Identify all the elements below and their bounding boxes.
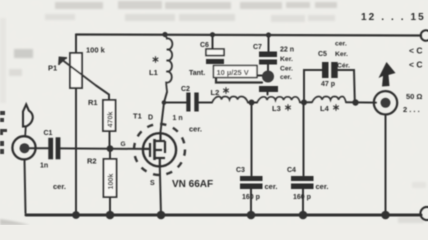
wire C4 bottom to rail (302, 189, 304, 215)
svg-text:Ker.: Ker. (335, 51, 348, 58)
svg-text:cer.: cer. (189, 125, 202, 134)
svg-text:C7: C7 (253, 44, 262, 51)
wire C6 top lead (212, 35, 214, 49)
svg-text:L1: L1 (149, 68, 158, 77)
node rail C3 (247, 211, 256, 220)
node rail P1 (72, 211, 80, 219)
resistor R1 body (103, 100, 116, 131)
wire input dot to C1 (28, 147, 49, 149)
ground terminal bottom right (420, 207, 428, 220)
inductor L2 coil (212, 97, 248, 103)
inductor L4 coil (312, 97, 346, 103)
wire bottom ground rail (26, 214, 421, 217)
node rail T1 source (157, 211, 166, 220)
wire P1 bottom to ground rail (75, 88, 77, 215)
input connector (12, 136, 35, 159)
svg-text:Ker.: Ker. (280, 56, 293, 63)
svg-text:10 µ/25 V: 10 µ/25 V (217, 68, 249, 77)
svg-text:Tant.: Tant. (189, 70, 205, 77)
transistor T1 inner circle (143, 133, 176, 166)
transistor T1 outer dashed circle (134, 124, 185, 175)
star L2 (223, 87, 229, 93)
wire C2 to L2 (199, 102, 213, 104)
svg-text:D: D (148, 115, 153, 122)
value box 10u/25V (214, 66, 258, 78)
inductor L1 coil (165, 36, 172, 92)
wire C3 drop (251, 103, 253, 176)
wire P1 wiper tap to R1 (96, 86, 109, 101)
wire rail corner down to P1 (75, 35, 77, 54)
svg-text:C3: C3 (236, 167, 245, 174)
capacitor C2 plates (186, 93, 198, 112)
wire input connector down to rail (25, 160, 26, 213)
svg-text:L3: L3 (272, 104, 281, 113)
svg-text:< C: < C (409, 60, 422, 70)
wire gate node to R2 top (109, 149, 111, 159)
svg-text:1 n: 1 n (173, 115, 183, 122)
svg-text:160 p: 160 p (293, 194, 311, 201)
feedthrough capacitor plate (259, 86, 278, 92)
svg-text:100k: 100k (106, 174, 115, 190)
input arrow (23, 105, 33, 127)
capacitor C3 plates (240, 176, 263, 189)
node rail output (381, 211, 390, 220)
node L3-L4-C5 junction (301, 99, 307, 105)
svg-text:C4: C4 (287, 167, 296, 174)
svg-text:cer.: cer. (335, 41, 347, 48)
svg-text:100 k: 100 k (86, 46, 106, 55)
output connector (374, 91, 397, 114)
wire C4 drop (303, 102, 305, 175)
supply terminal top right (421, 30, 428, 41)
svg-text:47 p: 47 p (321, 81, 335, 88)
left margin smudge (0, 18, 6, 103)
node C6 top rail (210, 32, 215, 37)
output arrow (379, 62, 396, 87)
svg-text:R1: R1 (88, 98, 98, 107)
potentiometer P1 wiper arrow (59, 58, 96, 86)
svg-text:S: S (150, 180, 155, 187)
wire C1 to gate node to T1 gate (60, 147, 143, 150)
wire C7 bottom lead (267, 65, 269, 71)
left edge cut text fragments (0, 111, 7, 154)
wire L2 end to L3 start (248, 102, 257, 104)
resistor R2 body (104, 159, 117, 197)
inductor L3 coil (257, 97, 300, 103)
wire L1 bottom to node (164, 92, 167, 103)
wire R2 bottom to rail (109, 197, 111, 215)
svg-text:50 Ω: 50 Ω (406, 92, 422, 101)
wire T1 source to rail (160, 167, 161, 216)
svg-text:cer.: cer. (280, 74, 292, 81)
node C7 top rail (266, 32, 271, 37)
svg-text:VN 66AF: VN 66AF (172, 179, 213, 190)
star L3 (285, 104, 291, 110)
wire output connector down to rail (385, 116, 387, 216)
input arrow tail to connector (24, 127, 27, 136)
wire main line node to C2 (164, 102, 187, 104)
svg-text:cer.: cer. (53, 182, 66, 191)
node drain junction (162, 100, 167, 105)
node gate junction (107, 145, 114, 152)
svg-text:22 n: 22 n (280, 47, 294, 54)
svg-text:12 . . . 15: 12 . . . 15 (361, 12, 426, 23)
svg-text:470k: 470k (106, 112, 115, 128)
wire C5 loop left (304, 70, 322, 102)
node L2-L3 junction (249, 100, 255, 106)
bottom-left corner swoosh (0, 219, 30, 225)
svg-text:L4: L4 (320, 104, 330, 113)
svg-text:Cer.: Cer. (280, 66, 293, 73)
node rail R2 (106, 211, 115, 220)
svg-text:2 . . .: 2 . . . (403, 105, 420, 114)
feedthrough capacitor circle (262, 71, 274, 83)
wire C3 bottom to rail (250, 189, 252, 215)
svg-text:160 p: 160 p (242, 194, 260, 201)
svg-text:G: G (121, 141, 126, 148)
wire R1 bottom to gate node (109, 131, 111, 149)
svg-text:Cér.: Cér. (337, 63, 350, 70)
node L1 top rail (162, 32, 167, 37)
wire C6 bottom via box to feedthrough (216, 78, 262, 83)
star L4 (333, 104, 339, 110)
capacitor C1 plates (48, 137, 60, 159)
node L4-out junction (352, 99, 358, 105)
wire L4 end to output (346, 101, 376, 103)
wire L3 end to L4 start (300, 101, 312, 103)
svg-text:cer.: cer. (316, 182, 329, 191)
wire C7 top lead (268, 35, 270, 52)
capacitor C5 plates (322, 62, 338, 78)
star L1 (153, 56, 159, 62)
svg-text:< C: < C (409, 46, 422, 56)
capacitor C7 plates (259, 52, 277, 65)
capacitor C6 tantalum (206, 49, 224, 56)
wire T1 drain to main node (161, 103, 165, 133)
wire feedthrough left stub (254, 75, 262, 77)
potentiometer P1 body (70, 53, 82, 88)
transistor T1 mosfet symbol (143, 133, 165, 166)
svg-text:P1: P1 (48, 64, 57, 73)
svg-text:cer.: cer. (265, 182, 278, 191)
wire C5 loop right (338, 70, 355, 103)
wire feedthrough bottom stub (267, 92, 269, 95)
svg-text:C6: C6 (200, 42, 209, 49)
svg-text:R2: R2 (87, 157, 97, 166)
capacitor C4 plates (291, 176, 314, 189)
svg-text:C5: C5 (318, 51, 327, 58)
svg-text:C1: C1 (44, 130, 53, 137)
svg-text:L2: L2 (211, 88, 220, 97)
svg-text:T1: T1 (133, 112, 142, 121)
wire top supply rail (76, 35, 421, 36)
node rail C4 (299, 211, 308, 220)
svg-text:C2: C2 (181, 86, 190, 93)
svg-text:1n: 1n (40, 163, 48, 170)
